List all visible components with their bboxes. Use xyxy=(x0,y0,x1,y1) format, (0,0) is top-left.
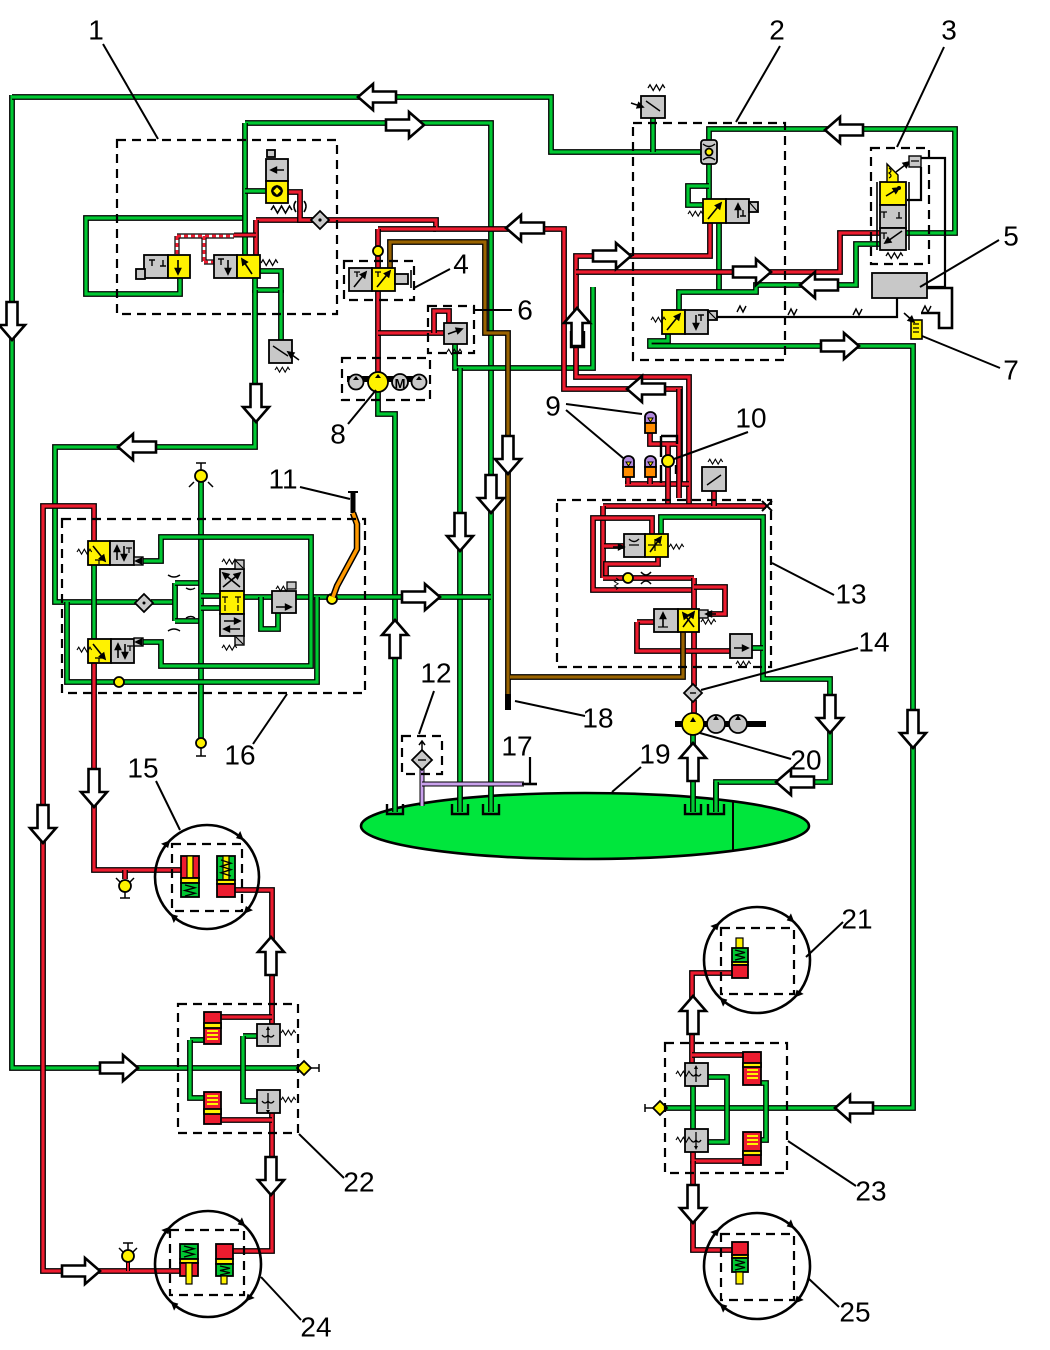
pump group 8 xyxy=(347,376,425,382)
leader line 21 xyxy=(806,922,843,957)
svg-text:7: 7 xyxy=(1003,354,1019,385)
svg-text:22: 22 xyxy=(343,1166,374,1197)
test point wheel15 line xyxy=(119,880,131,892)
box16 relief valve xyxy=(272,591,296,613)
leader line 9a xyxy=(566,404,642,414)
group box 13 xyxy=(557,500,771,667)
wheel21 brake unit xyxy=(736,938,743,948)
box16 diamond xyxy=(135,594,153,612)
valve 3 stack xyxy=(877,182,909,250)
svg-text:20: 20 xyxy=(790,744,821,775)
wire pilot black box5 to valve7 xyxy=(921,288,952,328)
box23 actuator lower xyxy=(743,1132,761,1165)
wire green pump8 case drain xyxy=(378,389,395,812)
leader line 18 xyxy=(515,701,585,716)
box23 valve upper xyxy=(685,1063,708,1086)
leader line 24 xyxy=(261,1277,301,1320)
svg-text:19: 19 xyxy=(639,738,670,769)
box23 valve lower xyxy=(685,1129,708,1152)
valve3 pilot triangle xyxy=(887,164,898,182)
arrow down on red to wheel24 xyxy=(258,1157,284,1195)
wire green box1 inner loop xyxy=(86,218,245,294)
svg-text:8: 8 xyxy=(330,418,346,449)
group box wheel25 xyxy=(721,1234,794,1300)
svg-text:4: 4 xyxy=(453,248,469,279)
wire green box1 top feed xyxy=(245,123,491,812)
wheel15 brake right piston xyxy=(217,856,235,880)
wire green pump20 suction xyxy=(690,733,696,812)
arrow down on red to wheel25 xyxy=(680,1185,706,1223)
svg-text:6: 6 xyxy=(517,294,533,325)
wire red wheel21 feed xyxy=(692,973,733,1064)
arrow down on green right main xyxy=(900,710,926,748)
wire red box16 valve2 to wheel15 xyxy=(94,662,182,870)
box22 valve upper xyxy=(257,1024,280,1046)
wire red diamond to main line xyxy=(327,220,680,484)
arrow left on top green bus xyxy=(358,84,396,110)
wire red branch to valve3 xyxy=(576,233,881,272)
box22 actuator upper xyxy=(204,1012,221,1044)
arrow down on green return xyxy=(447,513,473,551)
arrow right on red brake line xyxy=(593,243,631,269)
arrow down on red left main xyxy=(30,805,56,843)
wheel 24 circle xyxy=(155,1211,261,1317)
squiggle marks pilot lines xyxy=(788,309,797,315)
arrow down on green box1 drain xyxy=(243,384,269,422)
solenoid check valve box1 xyxy=(266,159,288,181)
leader line 20 xyxy=(700,733,791,759)
wire red box13 left vertical xyxy=(600,506,606,578)
valve 7 xyxy=(911,320,922,339)
leader line 2 xyxy=(736,46,780,122)
wire green lower valve out to right side main xyxy=(650,333,913,1108)
wire red box22 top bus xyxy=(221,1014,272,1020)
svg-text:9: 9 xyxy=(545,390,561,421)
svg-text:18: 18 xyxy=(582,702,613,733)
wire red box23 lower out xyxy=(693,1151,744,1161)
wire red accumulator10 drop xyxy=(650,389,679,506)
arrow right on red to valve3 xyxy=(733,259,771,285)
box 5 block xyxy=(872,273,927,298)
wire green V3 left ports xyxy=(201,593,220,599)
leader line 25 xyxy=(808,1278,839,1307)
wire green box23 internals xyxy=(690,1086,696,1131)
marker 18 leader tick xyxy=(529,757,531,783)
wire green to pressure switch xyxy=(278,290,284,341)
filter 12 xyxy=(412,750,432,770)
wire green valve2 side loop xyxy=(688,186,709,205)
wire red wheel15 to box22 xyxy=(234,890,272,1025)
svg-text:13: 13 xyxy=(835,578,866,609)
leader line 15 xyxy=(156,781,180,830)
arrow left on green drain xyxy=(800,272,838,298)
wire red left parking main xyxy=(43,506,181,1271)
node yellow circle box13 xyxy=(623,573,633,583)
wire pilot black switch lines box13 xyxy=(661,436,677,483)
arrow down on green left main xyxy=(0,302,25,340)
wire green valve2 drain xyxy=(716,222,722,292)
group box 23 xyxy=(665,1043,787,1173)
group box wheel15 xyxy=(172,844,242,911)
wire green brake main out of box16 xyxy=(244,594,491,600)
node yellow circle box16 bottom xyxy=(114,677,124,687)
accumulator 9b xyxy=(645,456,656,467)
flow divider orifice box2 xyxy=(701,140,717,164)
wire red box13 elbow xyxy=(593,518,694,590)
leader line 9b xyxy=(566,410,623,458)
wire pilot black box3 lines xyxy=(921,158,945,287)
arrow up on green pump drain xyxy=(382,620,408,658)
group box 22 xyxy=(178,1004,298,1133)
leader line 10 xyxy=(674,432,748,459)
leader line 11 xyxy=(300,487,350,499)
pilot valve small box3 xyxy=(909,156,921,167)
arrow right on green supply box22 xyxy=(100,1055,138,1081)
wire red valve6 top loop xyxy=(434,311,449,333)
group box 16 parking valve xyxy=(62,519,365,693)
wire red box13 bus xyxy=(603,503,766,509)
arrow down on green return2 xyxy=(478,475,504,513)
wire green gauge line vertical xyxy=(198,470,204,745)
wire green box1 valve drain loop xyxy=(255,271,281,290)
wheel15 brake left piston xyxy=(181,856,199,878)
wire red accumulator bus xyxy=(625,481,689,487)
group box 4 xyxy=(344,261,414,300)
wire green valve6 drain xyxy=(455,287,593,368)
leader line 13 xyxy=(772,563,834,595)
svg-text:16: 16 xyxy=(224,739,255,770)
box16 center valve V3 xyxy=(220,569,244,591)
wire red box13 valve1 loop xyxy=(606,556,658,578)
valve 2 upper (brake valve) xyxy=(703,199,726,223)
leader line 16 xyxy=(253,694,287,744)
svg-text:3: 3 xyxy=(941,14,957,45)
wire red pump to valve6 xyxy=(378,330,444,336)
wire green left main supply xyxy=(12,95,299,1068)
box16 valve V2 xyxy=(88,639,111,663)
tank 19 reservoir xyxy=(361,793,809,859)
group box 8 pump xyxy=(342,358,430,400)
svg-text:2: 2 xyxy=(769,14,785,45)
wire green box2 lower valve top net xyxy=(679,244,881,311)
wire brown steering pilot line xyxy=(390,242,508,696)
tank port brackets xyxy=(387,804,403,814)
arrow left on green return line xyxy=(118,434,156,460)
wire pilot black valve2 to box5 xyxy=(717,298,897,317)
leader line 1 xyxy=(103,44,158,139)
wire red valve2 down line xyxy=(576,222,710,506)
arrow up on red to wheel15 xyxy=(258,937,284,975)
group box 2 brake valve xyxy=(633,123,785,360)
wire red valve4 to pump8 xyxy=(375,291,381,374)
group box 12 filter xyxy=(402,736,442,774)
test diamond box22 xyxy=(297,1061,311,1075)
wire green switch2 stub xyxy=(650,118,656,152)
valve 6 unloader xyxy=(444,323,467,344)
svg-text:1: 1 xyxy=(88,14,104,45)
wire red box22 lower out xyxy=(232,1112,272,1251)
wire red box13 orifice line xyxy=(603,575,694,581)
wire green box16 main after diamond xyxy=(151,599,175,605)
arrow left on green to valve3 xyxy=(825,117,863,143)
wheel 21 circle xyxy=(704,907,810,1013)
accumulator 9a xyxy=(623,456,634,467)
wire green box16 bottom line xyxy=(67,597,317,682)
arrow down on brown pilot xyxy=(495,436,521,474)
svg-text:15: 15 xyxy=(127,752,158,783)
wire red box23 top bus xyxy=(692,1052,744,1058)
leader line 19 xyxy=(612,767,641,792)
svg-text:12: 12 xyxy=(420,657,451,688)
svg-text:21: 21 xyxy=(841,903,872,934)
group box 6 xyxy=(428,306,474,353)
check valve diamond box1 xyxy=(311,211,329,229)
arrow down on red to wheel15 xyxy=(81,769,107,807)
arrow up on red accumulator line xyxy=(564,308,590,346)
wire green divider down to valve2 xyxy=(706,163,712,200)
arrow down on green return right xyxy=(817,695,843,733)
accumulator 10 xyxy=(645,412,656,423)
wire red hatched pilot box1 xyxy=(177,236,234,262)
wire green return vertical to tank xyxy=(457,368,463,812)
wire green valve1-valve2 link box16 xyxy=(91,565,97,639)
wheel 15 circle xyxy=(155,825,259,929)
wire green top bus xyxy=(12,97,701,152)
svg-text:5: 5 xyxy=(1003,220,1019,251)
box13 relief valve xyxy=(730,634,752,658)
group box wheel21 xyxy=(721,928,794,994)
node yellow circle brake main xyxy=(327,594,337,604)
test point top gauge xyxy=(195,470,207,482)
wire red port bracket stub xyxy=(571,331,584,347)
leader line 12 xyxy=(419,691,434,734)
wheel24 brake right piston xyxy=(216,1244,233,1259)
wire green box1 vertical feed xyxy=(242,123,248,256)
hand lever 11 xyxy=(351,493,356,513)
wire green check valve feed xyxy=(245,188,267,194)
pressure switch box13 xyxy=(702,467,726,491)
plug X box13 bus xyxy=(762,501,772,511)
arrow right on red to wheel24 xyxy=(62,1258,100,1284)
wire green box22 main xyxy=(190,1037,204,1043)
leader line 8 xyxy=(348,390,376,424)
arrow right on box1 feed xyxy=(386,112,424,138)
box22 valve lower xyxy=(257,1090,280,1113)
svg-text:17: 17 xyxy=(501,730,532,761)
arrow left on green supply box23 xyxy=(835,1095,873,1121)
test point bottom gauge xyxy=(196,738,206,748)
leader line 23 xyxy=(788,1141,856,1186)
wire red box13 valve2 left loop xyxy=(637,619,654,625)
arrow up on green suction xyxy=(680,743,706,781)
wheel24 brake left piston xyxy=(180,1244,198,1259)
group box 1 pilot supply xyxy=(117,140,337,314)
arrow right on green brake main xyxy=(402,584,440,610)
wheel 25 circle xyxy=(704,1213,810,1319)
arrow left on red main xyxy=(627,376,665,402)
box16 valve V1 xyxy=(88,541,110,565)
arrow left on red supply line xyxy=(506,215,544,241)
wire green flow-divider to valve3 xyxy=(709,129,955,233)
svg-text:14: 14 xyxy=(858,626,889,657)
arrow up on red to wheel21 xyxy=(680,996,706,1034)
leader line 3 xyxy=(897,47,944,147)
valve B box1 left xyxy=(144,255,168,278)
svg-text:M: M xyxy=(395,376,406,391)
wire red valve4 branch xyxy=(378,226,436,232)
box13 valve2 xyxy=(654,609,678,632)
check valve diamond 14 xyxy=(684,684,702,702)
leader line 22 xyxy=(299,1134,344,1178)
wire green box13 return to tank xyxy=(661,517,830,812)
svg-text:24: 24 xyxy=(300,1311,331,1342)
wire green box1 drain down xyxy=(55,290,255,602)
group box 3 xyxy=(871,148,929,264)
wire green box16 drain rectangle loop xyxy=(143,537,311,666)
leader line 14 xyxy=(701,648,858,690)
wheel25 brake unit xyxy=(732,1242,748,1255)
wire red box13 central vertical xyxy=(691,578,697,610)
wire green relief bottom loop box16 xyxy=(261,597,278,629)
arrow left on green return to tank xyxy=(776,769,814,795)
wire purple filter lines xyxy=(420,768,425,806)
box23 actuator upper xyxy=(743,1052,761,1085)
wire red box13 valve2 right feed xyxy=(694,587,725,614)
leader line 6 xyxy=(474,309,512,311)
wire red check valve to diamond xyxy=(288,192,313,220)
leader line 4 xyxy=(414,269,450,288)
svg-text:25: 25 xyxy=(839,1296,870,1327)
wire red diamond left branch xyxy=(256,217,313,223)
marker 17 purple line end xyxy=(522,783,537,786)
svg-text:23: 23 xyxy=(855,1175,886,1206)
box16 manifold brackets xyxy=(168,575,195,631)
node yellow circle pump line xyxy=(373,246,383,256)
valve C box1 right xyxy=(214,255,237,278)
valve 2 lower (brake valve) xyxy=(662,310,685,334)
test diamond box23 xyxy=(653,1101,667,1115)
pump motor group 20 xyxy=(675,721,766,727)
arrow right on green lower drain xyxy=(821,333,859,359)
pressure switch top box2 xyxy=(641,96,665,118)
orifice symbol box13 xyxy=(641,572,651,584)
node yellow circle accumulators xyxy=(662,455,674,467)
group box wheel24 xyxy=(170,1230,244,1295)
svg-text:11: 11 xyxy=(268,463,297,494)
box13 valve1 xyxy=(624,534,645,557)
test point wheel24 line xyxy=(126,1262,130,1271)
box22 actuator lower xyxy=(204,1092,221,1124)
pressure switch left xyxy=(269,340,292,363)
leader line 5 xyxy=(920,240,999,287)
leader line 7 xyxy=(922,336,1000,368)
svg-text:10: 10 xyxy=(735,402,766,433)
valve 4 xyxy=(349,268,372,291)
